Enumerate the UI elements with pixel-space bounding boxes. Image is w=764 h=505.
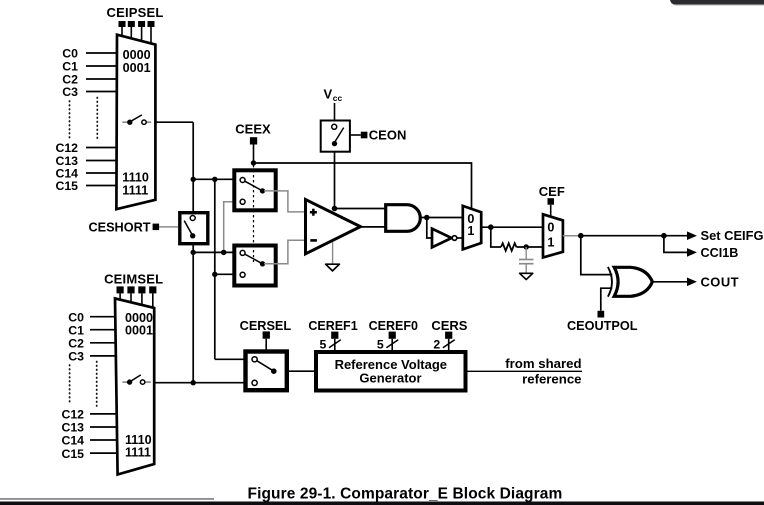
reference voltage generator box (316, 352, 466, 391)
wire: output node to Set CEIFG (581, 235, 688, 237)
wire: CEEX control line to output mux select (254, 163, 472, 209)
svg-text:C12: C12 (55, 141, 78, 155)
wire: CEREF0 stem with bus slash, width 5 (377, 338, 398, 352)
mux U4 (CEF filter select) (543, 214, 563, 257)
ground symbol (comparator) (326, 264, 340, 271)
wire: CEREF1 stem with bus slash, width 5 (319, 338, 340, 352)
svg-text:1: 1 (467, 224, 474, 238)
junction dot output node (578, 233, 584, 239)
svg-text:COUT: COUT (701, 274, 740, 289)
junction dot (212, 272, 217, 277)
svg-text:CEIMSEL: CEIMSEL (104, 272, 163, 287)
label from shared reference (505, 356, 581, 386)
svg-text:CEIPSEL: CEIPSEL (106, 5, 163, 20)
svg-text:Set CEIFG: Set CEIFG (701, 228, 764, 243)
arrow Set CEIFG (687, 231, 697, 240)
wire: mux U3 output (481, 226, 543, 228)
mux U3 (CEEX output polarity select) (463, 206, 481, 249)
CEON pin square (361, 132, 368, 139)
input labels C0-C15 (bottom mux) (61, 310, 84, 460)
wire: resistor to mux 1 input (516, 246, 543, 248)
svg-text:1111: 1111 (125, 445, 151, 459)
wire: comparator output to AND input (361, 226, 387, 228)
svg-text:cc: cc (333, 93, 343, 103)
junction dot AND output (424, 215, 430, 221)
wire: CESHORT stub (grey) (159, 226, 178, 228)
svg-text:from shared: from shared (505, 356, 581, 371)
svg-text:1: 1 (547, 235, 554, 249)
svg-text:CEREF0: CEREF0 (369, 319, 418, 333)
input labels C0-C15 (top mux) (55, 47, 78, 194)
capacitor (filter) (519, 247, 534, 273)
CEIMSEL pin wires (120, 293, 153, 307)
svg-text:C0: C0 (68, 310, 84, 324)
grey wire: CEEX top switch pole to comparator + input (264, 191, 305, 212)
wire: XOR output (652, 281, 687, 283)
CERSEL pin square (263, 331, 270, 338)
svg-text:CEREF1: CEREF1 (308, 319, 357, 333)
op-amp comparator (306, 200, 361, 254)
svg-text:C15: C15 (55, 179, 78, 193)
CEIMSEL pin squares (117, 286, 157, 293)
svg-text:C13: C13 (61, 421, 84, 435)
comparator - label (310, 239, 317, 242)
wire: from shared reference line (466, 370, 583, 372)
junction dot (grey link joins node) redraw (221, 250, 226, 255)
junction dot on comparator top edge (332, 206, 338, 212)
svg-text:CEF: CEF (539, 184, 565, 199)
wire: CEIMSEL mux output to CERSEL (154, 382, 252, 384)
wire: horizontal at y=274.3 to CEEX bottom switch lower terminal (215, 273, 241, 275)
wire: CERSEL pin stem (265, 339, 267, 350)
wire: enable to AND gate top input (335, 208, 387, 210)
page bottom border band (0, 498, 764, 505)
AND gate U2 (386, 205, 421, 232)
wire: CCI1B branch (664, 236, 688, 253)
svg-text:Figure 29-1. Comparator_E Bloc: Figure 29-1. Comparator_E Block Diagram (248, 485, 563, 502)
junction dots on y=252.4 (191, 250, 196, 255)
resistor (filter) (501, 243, 516, 251)
CERS pin square (445, 332, 452, 339)
wire: output node down to XOR input (581, 236, 613, 275)
browser chrome dark bar top-right (670, 0, 764, 6)
switch inside CEIMSEL mux (122, 375, 150, 385)
wire: CEF pin stem (550, 205, 552, 218)
svg-text:C1: C1 (68, 323, 84, 337)
wire: inverter output to mux (457, 237, 463, 239)
svg-text:0: 0 (547, 221, 554, 235)
svg-text:C15: C15 (61, 447, 84, 461)
svg-text:0001: 0001 (123, 61, 151, 75)
wire: horizontal node at y=179.3 to CEEX top switch (193, 178, 241, 180)
dotted ellipsis lines (top mux) (70, 98, 98, 142)
svg-text:5: 5 (319, 338, 326, 352)
wire: vertical bus x=214.8 (215, 179, 252, 359)
switch box CERSEL (246, 352, 287, 391)
svg-text:5: 5 (377, 338, 384, 352)
svg-text:CEON: CEON (369, 127, 407, 142)
switch box CEON (comparator enable) (321, 121, 350, 152)
switch box CEEX bottom (234, 246, 275, 286)
wire: CEON pin stub (351, 134, 361, 136)
comparator + label (310, 209, 317, 216)
svg-text:reference: reference (522, 372, 581, 387)
svg-text:CEEX: CEEX (235, 122, 271, 137)
switch inside CEIPSEL mux (122, 115, 151, 125)
XOR gate (output polarity) (608, 267, 653, 297)
svg-text:V: V (324, 87, 333, 102)
svg-text:CEOUTPOL: CEOUTPOL (567, 319, 638, 333)
wire: AND output (421, 217, 463, 219)
svg-text:Generator: Generator (359, 370, 421, 385)
dashed mechanical link between CEEX switches (253, 165, 255, 262)
junction dot at bottom mux output (191, 380, 196, 385)
svg-text:1110: 1110 (122, 171, 149, 185)
svg-text:0000: 0000 (123, 48, 151, 62)
wire: filter branch down (491, 227, 501, 247)
CEREF1 pin square (331, 332, 338, 339)
svg-text:2: 2 (433, 338, 440, 352)
wire: Vcc stem (334, 103, 336, 120)
junction dot mux U3 output (488, 224, 494, 230)
svg-text:0001: 0001 (125, 323, 153, 337)
junction dots on y=179.3 (191, 177, 196, 182)
switch box CESHORT (180, 213, 208, 244)
grey wire: CEEX bottom switch pole to comparator - input (264, 240, 305, 264)
mux CEIMSEL (16:1 trapezoid) (115, 298, 154, 474)
junction dot CCI1B tap (661, 233, 667, 239)
label Vcc (324, 87, 343, 103)
svg-text:CESHORT: CESHORT (88, 220, 150, 234)
CEEX pin square (250, 137, 257, 144)
inverter buffer (432, 229, 452, 248)
junction dot CEEX node (251, 160, 256, 165)
input wires C0-C15 (top mux) (86, 53, 118, 186)
ground symbol (filter) (520, 273, 533, 279)
svg-text:CERSEL: CERSEL (240, 319, 292, 333)
svg-text:C2: C2 (68, 337, 84, 351)
grey wire: CEEX top switch lower terminal to node y=252.4 (224, 202, 243, 253)
wire: horizontal node at y=252.4 to CEEX bottom switch (193, 251, 241, 253)
svg-text:CERS: CERS (431, 318, 467, 333)
CEF pin square (548, 198, 555, 205)
CEREF0 pin square (389, 332, 396, 339)
grey wire: comparator ground stem (332, 242, 334, 264)
svg-text:C14: C14 (61, 434, 84, 448)
dotted ellipsis lines (bottom mux) (70, 362, 97, 407)
mux CEIPSEL (16:1 trapezoid) (116, 35, 155, 210)
wire: V+ vertical bus x=193 (192, 122, 194, 383)
wire: branch down to inverter (427, 218, 431, 239)
svg-text:C12: C12 (61, 408, 84, 422)
switch box CEEX top (234, 170, 275, 210)
svg-text:C3: C3 (68, 350, 84, 364)
CEIPSEL pin wires (122, 27, 151, 44)
svg-text:C3: C3 (62, 85, 78, 99)
grey wire: mux U4 output stub (563, 235, 581, 237)
CEOUTPOL pin square (598, 311, 605, 318)
svg-text:C1: C1 (62, 60, 78, 74)
CEIPSEL pin squares (119, 21, 155, 27)
junction dot filter node (524, 244, 529, 249)
CESHORT pin square (153, 224, 160, 231)
wire: CEEX pin stem (253, 145, 255, 164)
svg-text:CCI1B: CCI1B (701, 246, 739, 260)
arrow COUT (687, 278, 697, 287)
svg-text:1111: 1111 (122, 184, 148, 198)
arrow CCI1B (687, 248, 697, 257)
input wires C0-C15 (bottom mux) (90, 317, 117, 453)
wire: CERSEL output to reference generator (287, 370, 316, 372)
wire: CEOUTPOL to XOR lower input (601, 288, 613, 311)
svg-text:C0: C0 (62, 47, 78, 61)
wire: CERS stem with bus slash, width 2 (433, 338, 454, 352)
wire: CEIPSEL mux output (155, 121, 193, 123)
wire: comparator supply drop (334, 152, 336, 209)
